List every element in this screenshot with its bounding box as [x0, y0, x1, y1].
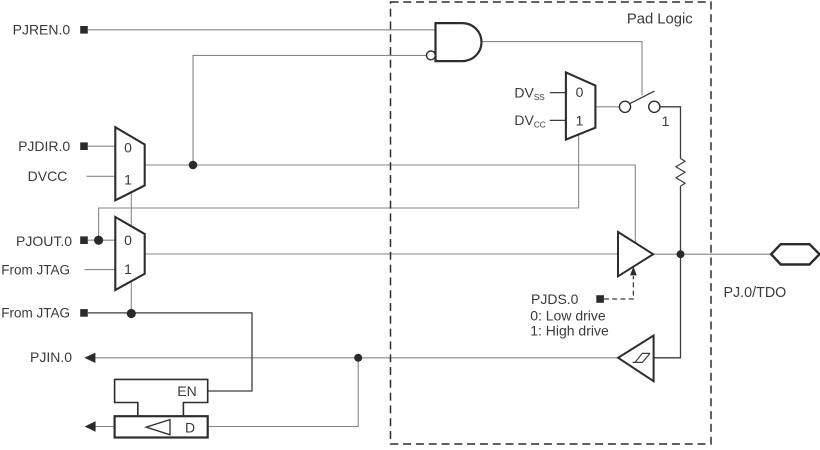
- wire PJOUT.0 junction up and right to mux M3 select: [99, 134, 579, 240]
- wire DVCC stub into mux M1 input 1: [87, 175, 117, 177]
- wire DVSS stub into mux M3 input 0: [550, 92, 566, 94]
- svg-text:DVSS: DVSS: [514, 84, 545, 102]
- terminal square PJDS.0: [596, 295, 604, 303]
- wire From JTAG net to EN input (dark): [88, 313, 252, 391]
- terminal square PJDIR.0: [80, 142, 88, 150]
- switch lever: [630, 91, 655, 104]
- output buffer U2 (tri-state driver): [618, 232, 653, 276]
- wire mux M2 output to output buffer input: [145, 253, 619, 255]
- svg-text:PJ.0/TDO: PJ.0/TDO: [724, 285, 787, 301]
- dashed box Pad Logic boundary: [391, 2, 712, 444]
- wire resistor bottom through pad junction to Schmitt buffer input: [654, 186, 681, 358]
- junction dot pad line / resistor: [677, 250, 685, 258]
- wire PJDIR mux output to inverted AND input (vertical x=193): [193, 55, 427, 165]
- junction dot mux M1 output / AND input: [189, 161, 198, 170]
- svg-text:0: 0: [124, 140, 132, 156]
- wire PJDIR.0 stub into mux M1 input 0: [88, 145, 116, 147]
- svg-text:From JTAG: From JTAG: [1, 306, 70, 321]
- wire output buffer to pad: [653, 253, 771, 255]
- hysteresis symbol inside U3: [633, 353, 650, 362]
- mux M2 (PJOUT / From JTAG): [115, 217, 144, 290]
- svg-text:1: 1: [662, 113, 670, 129]
- mux M1 (PJDIR / DVCC): [115, 127, 144, 200]
- junction dot PJOUT.0: [94, 236, 103, 245]
- svg-text:PJIN.0: PJIN.0: [30, 349, 72, 365]
- junction dot From JTAG select: [127, 309, 136, 318]
- wire PJREN.0 to AND gate input: [88, 29, 436, 31]
- wire mux M3 output to switch left contact: [595, 106, 619, 108]
- wire switch right contact to resistor top: [660, 107, 681, 159]
- svg-text:PJOUT.0: PJOUT.0: [16, 233, 72, 249]
- clock triangle inside D latch: [146, 420, 170, 435]
- Schmitt trigger input buffer U3: [618, 336, 654, 382]
- wire PJIN.0 line from Schmitt buffer output: [95, 357, 619, 359]
- wire PJOUT.0 stub into mux M2 input 0: [88, 239, 116, 241]
- svg-text:PJREN.0: PJREN.0: [13, 21, 71, 37]
- wire DVCC stub into mux M3 input 1: [550, 119, 566, 121]
- PJDS.0 dashed control line with arrow into buffer: [604, 276, 633, 299]
- svg-text:1: 1: [124, 172, 132, 188]
- wire AND output to switch lever control: [481, 42, 642, 96]
- EN latch enable box: [115, 379, 208, 416]
- wire From JTAG stub into mux M2 input 1: [85, 269, 117, 271]
- terminal square PJOUT.0: [80, 236, 88, 244]
- switch S1 right contact: [649, 101, 660, 112]
- svg-text:1: 1: [124, 261, 132, 277]
- AND gate U1 (REN enable, inverted lower input): [436, 23, 482, 61]
- svg-text:DVCC: DVCC: [28, 168, 68, 184]
- svg-text:0: 0: [576, 84, 584, 100]
- svg-text:PJDIR.0: PJDIR.0: [18, 138, 70, 154]
- wire D latch output stub to arrow: [95, 426, 114, 428]
- svg-text:0: 0: [124, 232, 132, 248]
- svg-text:DVCC: DVCC: [514, 112, 545, 130]
- svg-text:EN: EN: [177, 383, 196, 399]
- terminal square From JTAG: [80, 309, 88, 317]
- pad hexagon PJ.0/TDO: [771, 244, 819, 264]
- arrowhead D latch output to JTAG: [85, 421, 96, 431]
- svg-text:Pad Logic: Pad Logic: [627, 12, 693, 28]
- resistor R1: [676, 159, 685, 187]
- inverter bubble on AND gate lower input: [427, 51, 436, 60]
- svg-text:D: D: [185, 420, 195, 436]
- wire mux select vertical from M1 bottom through M2 to From JTAG junction: [130, 192, 132, 314]
- wire mux M1 output to output buffer enable: [145, 165, 636, 246]
- junction dot PJIN / D input: [354, 354, 362, 362]
- terminal square PJREN.0: [80, 26, 88, 34]
- arrowhead PJIN.0 output: [84, 353, 95, 363]
- wire PJIN junction down to D latch input: [208, 358, 358, 427]
- svg-text:1: High drive: 1: High drive: [530, 323, 609, 339]
- D latch box: [115, 416, 208, 437]
- mux M3 (DVSS / DVCC pull select): [566, 72, 596, 139]
- svg-text:0: Low drive: 0: Low drive: [530, 308, 606, 324]
- svg-text:From JTAG: From JTAG: [1, 262, 70, 277]
- arrowhead PJDS.0 into output buffer: [630, 267, 637, 276]
- svg-text:1: 1: [576, 112, 584, 128]
- switch S1 left contact: [619, 101, 630, 112]
- svg-text:PJDS.0: PJDS.0: [531, 291, 579, 307]
